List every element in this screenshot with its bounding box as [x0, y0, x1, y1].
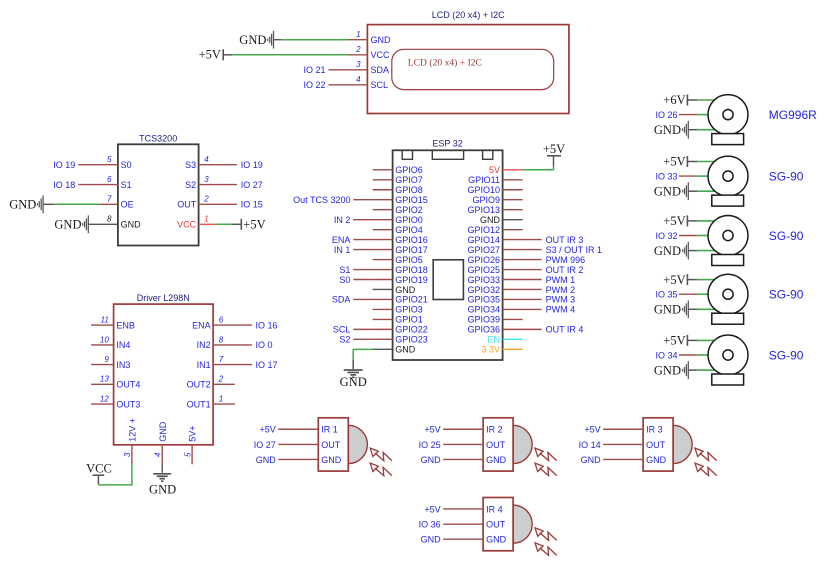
svg-text:IO 15: IO 15 [241, 200, 263, 210]
ESP 32 antenna notch right [483, 150, 493, 159]
svg-text:IO 19: IO 19 [53, 160, 75, 170]
svg-text:IR 4: IR 4 [486, 504, 503, 514]
svg-text:GPIO8: GPIO8 [395, 185, 423, 195]
svg-text:GPIO3: GPIO3 [395, 305, 423, 315]
wire GND to LCD pin 1 [274, 39, 282, 41]
ESP 32 pin GPIO21 (left row 14) [373, 298, 393, 300]
L298N pin 6 ENA [213, 324, 252, 326]
IR sensor IR 2 body [483, 418, 513, 471]
IR sensor IR 3 dome [673, 425, 692, 463]
IR emission arrows (IR 2) [535, 448, 543, 456]
servo M2 base [712, 195, 744, 206]
svg-text:IO 19: IO 19 [241, 160, 263, 170]
svg-text:GND: GND [646, 455, 667, 465]
svg-text:+5V: +5V [543, 142, 565, 156]
svg-text:SG-90: SG-90 [769, 229, 804, 243]
svg-text:GPIO15: GPIO15 [395, 195, 428, 205]
ESP 32 pin GPIO1 (left row 16) [373, 318, 393, 320]
wire GND to servo [688, 369, 697, 371]
svg-text:IN 1: IN 1 [334, 245, 351, 255]
IR emission arrows (IR 4) [535, 528, 543, 536]
svg-text:ENB: ENB [116, 320, 135, 330]
svg-text:6: 6 [219, 316, 224, 325]
ESP 32 pin GPIO7 (left row 2) [373, 179, 393, 181]
svg-text:GND: GND [395, 345, 416, 355]
wire IO 26 to servo [679, 114, 697, 116]
svg-text:IO 21: IO 21 [303, 65, 325, 75]
L298N pin 9 IN3 [91, 364, 114, 366]
IR sensor IR 4 body [483, 498, 513, 551]
wire GND to servo [688, 129, 697, 131]
svg-text:4: 4 [153, 452, 162, 457]
svg-text:5V+: 5V+ [188, 426, 198, 442]
ESP 32 pin GPIO2 (left row 5) [373, 209, 393, 211]
TCS3200 pin 4 S3 [199, 164, 237, 166]
svg-text:8: 8 [219, 335, 224, 344]
svg-text:11: 11 [100, 316, 108, 325]
svg-text:GND: GND [256, 455, 277, 465]
svg-text:GPIO17: GPIO17 [395, 245, 428, 255]
svg-text:Out TCS 3200: Out TCS 3200 [293, 195, 350, 205]
svg-text:+5V: +5V [663, 214, 685, 228]
svg-text:GPIO35: GPIO35 [467, 295, 500, 305]
svg-text:GND: GND [54, 218, 81, 232]
svg-text:1: 1 [204, 215, 208, 224]
ESP 32 pin GPIO5 (left row 10) [373, 259, 393, 261]
svg-text:VCC: VCC [371, 50, 391, 60]
svg-text:5V: 5V [489, 165, 500, 175]
svg-text:LCD (20 x4) + I2C: LCD (20 x4) + I2C [432, 10, 505, 20]
ESP 32 pin GPIO16 (left row 8) [373, 239, 393, 241]
svg-text:EN: EN [487, 335, 500, 345]
TCS3200 pin 6 S1 [98, 184, 118, 186]
svg-text:IN 2: IN 2 [334, 215, 351, 225]
wire IO 34 to servo [679, 354, 697, 356]
svg-text:OUT: OUT [646, 440, 666, 450]
svg-text:GPIO4: GPIO4 [395, 225, 423, 235]
LCD screen outline [392, 49, 554, 89]
ESP 32 pin GPIO22 (left row 17) [373, 328, 393, 330]
wire IO 33 to servo [679, 175, 697, 177]
wire +5V to servo [687, 339, 697, 341]
svg-text:GPIO5: GPIO5 [395, 255, 423, 265]
svg-text:IR 1: IR 1 [321, 425, 338, 435]
svg-text:OUT IR 3: OUT IR 3 [546, 235, 584, 245]
wire IO 19 to S0 [78, 164, 98, 166]
svg-text:PWM 3: PWM 3 [546, 295, 576, 305]
svg-text:IN2: IN2 [197, 340, 211, 350]
svg-text:GPIO27: GPIO27 [467, 245, 500, 255]
svg-text:OUT IR 4: OUT IR 4 [546, 325, 584, 335]
wire +5V to IR 4 [443, 508, 483, 510]
wire +5V to servo [687, 220, 697, 222]
wire +5V to LCD pin 2 [223, 54, 232, 56]
wire Out TCS 3200 to ESP 32 [353, 199, 372, 201]
svg-text:OUT: OUT [486, 519, 506, 529]
svg-text:S3: S3 [185, 160, 196, 170]
servo M3 body [708, 216, 748, 256]
ESP 32 pin GPIO0 (left row 6) [373, 219, 393, 221]
ESP 32 inner module rect [433, 260, 463, 300]
IR sensor IR 4 dome [513, 505, 532, 543]
wire IO 18 to S1 [78, 184, 98, 186]
wire SDA to ESP 32 [353, 298, 372, 300]
svg-text:OUT3: OUT3 [116, 399, 140, 409]
LCD pin 2 VCC [348, 54, 367, 56]
ESP 32 pin GPIO3 (left row 15) [373, 308, 393, 310]
L298N pin 13 OUT4 [91, 383, 114, 385]
wire IO 35 to servo [679, 293, 697, 295]
svg-text:1: 1 [219, 395, 223, 404]
L298N pin 8 IN2 [213, 344, 252, 346]
servo M4 base [712, 313, 744, 324]
svg-text:IR 2: IR 2 [486, 425, 503, 435]
svg-text:IN3: IN3 [116, 360, 130, 370]
wire +5V to servo [687, 161, 697, 163]
ESP 32 pin GPIO6 (left row 1) [373, 169, 393, 171]
servo M4 body [708, 274, 748, 314]
svg-text:GPIO36: GPIO36 [467, 325, 500, 335]
svg-text:S0: S0 [121, 160, 132, 170]
svg-text:GND: GND [9, 198, 36, 212]
wire ENA to ESP 32 [353, 239, 372, 241]
wire IO 25 to IR 2 [443, 443, 483, 445]
svg-text:GND: GND [654, 303, 681, 317]
svg-text:GND: GND [421, 534, 442, 544]
wire GND to OE [43, 203, 54, 205]
svg-text:IO 22: IO 22 [303, 80, 325, 90]
svg-text:IO 26: IO 26 [655, 110, 677, 120]
svg-text:ENA: ENA [192, 320, 211, 330]
svg-text:3.3V: 3.3V [481, 345, 500, 355]
svg-text:GND: GND [158, 421, 168, 442]
svg-text:IO 32: IO 32 [655, 231, 677, 241]
svg-text:GND: GND [480, 215, 501, 225]
svg-text:S1: S1 [121, 180, 132, 190]
svg-text:GND: GND [654, 363, 681, 377]
Driver L298N body [114, 304, 214, 445]
svg-text:GND: GND [421, 455, 442, 465]
svg-text:3: 3 [356, 60, 361, 69]
L298N pin 10 IN4 [91, 344, 114, 346]
servo M3 base [712, 255, 744, 266]
svg-text:OUT1: OUT1 [187, 399, 211, 409]
svg-text:4: 4 [204, 155, 209, 164]
wire IN 2 to ESP 32 [353, 219, 372, 221]
L298N pin 1 OUT1 [213, 403, 235, 405]
wire GND to pin 8 [88, 223, 118, 225]
svg-text:SDA: SDA [371, 65, 390, 75]
svg-text:2: 2 [218, 375, 224, 384]
svg-text:GPIO11: GPIO11 [468, 175, 500, 185]
IR sensor IR 2 dome [513, 425, 532, 463]
wire GND to IR 1 [278, 458, 318, 460]
LCD pin 1 GND [348, 39, 367, 41]
svg-text:GPIO0: GPIO0 [395, 215, 423, 225]
wire +5V to IR 1 [278, 428, 318, 430]
wire GND net to ESP 32 bottom-left [353, 348, 372, 350]
svg-text:7: 7 [107, 195, 112, 204]
svg-text:+5V: +5V [199, 48, 221, 62]
wire IN 1 to ESP 32 [353, 249, 372, 251]
wire S1 to ESP 32 [353, 269, 372, 271]
servo M5 base [712, 374, 744, 385]
svg-text:OUT: OUT [321, 440, 341, 450]
svg-text:GND: GND [654, 184, 681, 198]
svg-text:5: 5 [107, 155, 112, 164]
wire GND to IR 2 [443, 458, 483, 460]
ESP 32 body [393, 150, 503, 360]
svg-text:OUT IR 2: OUT IR 2 [546, 265, 584, 275]
svg-text:PWM 4: PWM 4 [546, 305, 576, 315]
wire IO 14 to IR 3 [603, 443, 643, 445]
svg-text:+5V: +5V [663, 334, 685, 348]
svg-text:6: 6 [107, 175, 112, 184]
svg-text:+5V: +5V [584, 425, 600, 435]
svg-text:GND: GND [121, 220, 142, 230]
svg-text:GND: GND [654, 123, 681, 137]
svg-text:IO 17: IO 17 [256, 360, 278, 370]
svg-text:5: 5 [183, 452, 192, 457]
svg-text:IO 14: IO 14 [579, 440, 601, 450]
IR sensor IR 3 body [643, 418, 673, 471]
svg-text:IO 36: IO 36 [419, 519, 441, 529]
svg-text:12: 12 [100, 395, 109, 404]
svg-text:GND: GND [149, 483, 176, 497]
svg-text:+6V: +6V [663, 93, 685, 107]
svg-text:IO 25: IO 25 [419, 440, 441, 450]
svg-text:+5V: +5V [663, 273, 685, 287]
svg-text:GPIO39: GPIO39 [467, 315, 500, 325]
svg-text:ENA: ENA [332, 235, 351, 245]
L298N pin 5 5V+ [191, 445, 193, 465]
svg-text:GND: GND [371, 35, 392, 45]
svg-text:GPIO12: GPIO12 [467, 225, 500, 235]
wire GND to servo [688, 190, 697, 192]
svg-text:OUT4: OUT4 [116, 380, 140, 390]
L298N pin 11 ENB [91, 324, 114, 326]
L298N pin 3 12V + [131, 445, 133, 465]
wire +5V to IR 2 [443, 428, 483, 430]
svg-text:S0: S0 [339, 275, 350, 285]
svg-text:7: 7 [219, 355, 224, 364]
svg-text:TCS3200: TCS3200 [139, 133, 177, 143]
svg-text:S2: S2 [185, 180, 196, 190]
svg-text:S3 / OUT IR 1: S3 / OUT IR 1 [546, 245, 602, 255]
svg-text:OUT2: OUT2 [187, 380, 211, 390]
power VCC [93, 474, 105, 476]
svg-text:ESP 32: ESP 32 [432, 139, 462, 149]
svg-text:GPIO13: GPIO13 [467, 205, 500, 215]
wire IO 36 to IR 4 [443, 523, 483, 525]
wire GND to servo [688, 250, 697, 252]
svg-text:IO 27: IO 27 [254, 440, 276, 450]
TCS3200 pin 2 OUT [199, 203, 237, 205]
svg-text:GND: GND [395, 285, 416, 295]
svg-text:GND: GND [239, 33, 266, 47]
svg-text:S1: S1 [339, 265, 350, 275]
wire IO 32 to servo [679, 235, 697, 237]
svg-text:GPIO34: GPIO34 [467, 305, 500, 315]
wire IO 21 to SDA [329, 69, 349, 71]
LCD pin 4 SCL [348, 84, 367, 86]
svg-text:SG-90: SG-90 [769, 288, 804, 302]
svg-text:GPIO14: GPIO14 [467, 235, 500, 245]
svg-text:+5V: +5V [663, 155, 685, 169]
svg-text:GPIO1: GPIO1 [395, 315, 423, 325]
ESP 32 pin GPIO4 (left row 7) [373, 229, 393, 231]
svg-text:GPIO18: GPIO18 [395, 265, 428, 275]
IR sensor IR 1 dome [348, 425, 367, 463]
IR emission arrows (IR 1) [370, 448, 378, 456]
ESP 32 pin GND (left row 13) [373, 288, 393, 290]
ESP 32 pin GPIO15 (left row 4) [373, 199, 393, 201]
svg-text:GPIO9: GPIO9 [472, 195, 500, 205]
wire GND to IR 4 [443, 538, 483, 540]
ESP 32 antenna notch left [402, 150, 412, 159]
TCS3200 pin 5 S0 [98, 164, 118, 166]
svg-text:13: 13 [100, 375, 109, 384]
ESP 32 pin GPIO8 (left row 3) [373, 189, 393, 191]
svg-text:3: 3 [123, 452, 132, 457]
svg-text:GPIO2: GPIO2 [395, 205, 423, 215]
wire IO 22 to SCL [329, 84, 349, 86]
svg-text:4: 4 [356, 75, 361, 84]
svg-text:SG-90: SG-90 [769, 169, 804, 183]
L298N pin 12 OUT3 [91, 403, 114, 405]
svg-text:GPIO19: GPIO19 [395, 275, 428, 285]
svg-text:LCD (20 x4) + I2C: LCD (20 x4) + I2C [408, 57, 482, 68]
svg-text:PWM 996: PWM 996 [546, 255, 586, 265]
svg-text:10: 10 [100, 335, 109, 344]
svg-text:12V +: 12V + [128, 418, 138, 442]
svg-text:IO 27: IO 27 [241, 180, 263, 190]
svg-text:GPIO6: GPIO6 [395, 165, 423, 175]
svg-text:GPIO33: GPIO33 [467, 275, 500, 285]
svg-text:SDA: SDA [332, 295, 351, 305]
svg-text:IO 35: IO 35 [655, 290, 677, 300]
svg-text:+5V: +5V [424, 504, 440, 514]
ESP 32 pin GPIO18 (left row 11) [373, 269, 393, 271]
IR sensor IR 1 body [318, 418, 348, 471]
svg-text:GPIO10: GPIO10 [467, 185, 500, 195]
power +5V (TCS3200 VCC) [216, 223, 232, 225]
svg-text:+5V: +5V [424, 425, 440, 435]
TCS3200 pin 3 S2 [199, 184, 237, 186]
svg-text:+5V: +5V [243, 218, 265, 232]
svg-text:IO 16: IO 16 [256, 320, 278, 330]
L298N pin 2 OUT2 [213, 383, 235, 385]
svg-text:OUT: OUT [177, 200, 197, 210]
wire GND to IR 3 [603, 458, 643, 460]
wire +5V to IR 3 [603, 428, 643, 430]
svg-text:SG-90: SG-90 [769, 348, 804, 362]
servo M1 base [712, 134, 744, 145]
svg-text:3: 3 [204, 175, 209, 184]
wire GND lead (L298N pin 4) [161, 464, 163, 473]
svg-text:VCC: VCC [177, 220, 197, 230]
IR emission arrows (IR 3) [695, 448, 703, 456]
svg-text:1: 1 [356, 30, 360, 39]
svg-text:IO 33: IO 33 [655, 171, 677, 181]
wire +6V to servo [687, 99, 697, 101]
svg-text:GPIO23: GPIO23 [395, 335, 428, 345]
svg-text:GND: GND [321, 455, 342, 465]
servo M5 body [708, 335, 748, 375]
wire +5V to servo [687, 279, 697, 281]
ESP 32 pin GPIO23 (left row 18) [373, 338, 393, 340]
servo M1 body [708, 95, 748, 135]
svg-text:Driver L298N: Driver L298N [137, 293, 190, 303]
svg-text:9: 9 [104, 355, 109, 364]
svg-text:GPIO16: GPIO16 [395, 235, 428, 245]
ESP 32 pin GPIO17 (left row 9) [373, 249, 393, 251]
ESP 32 pin GPIO19 (left row 12) [373, 279, 393, 281]
svg-text:IO 0: IO 0 [256, 340, 273, 350]
svg-text:GPIO21: GPIO21 [395, 295, 428, 305]
L298N pin 7 IN1 [213, 364, 252, 366]
svg-text:2: 2 [355, 45, 361, 54]
svg-text:GPIO25: GPIO25 [467, 265, 500, 275]
svg-text:GPIO22: GPIO22 [395, 325, 428, 335]
LCD module body [367, 25, 569, 114]
wire S0 to ESP 32 [353, 279, 372, 281]
wire SCL to ESP 32 [353, 328, 372, 330]
svg-text:IN4: IN4 [116, 340, 130, 350]
svg-text:GND: GND [486, 534, 507, 544]
svg-text:+5V: +5V [260, 425, 276, 435]
wire IO 27 to IR 1 [278, 443, 318, 445]
L298N pin 4 GND [161, 445, 163, 465]
svg-text:2: 2 [203, 195, 209, 204]
LCD pin 3 SDA [348, 69, 367, 71]
svg-text:IN1: IN1 [197, 360, 211, 370]
wire S2 to ESP 32 [353, 338, 372, 340]
TCS3200 body [118, 144, 199, 245]
ground GND (below ESP 32) [344, 369, 363, 371]
power +5V (ESP 32) [547, 155, 561, 157]
svg-text:OE: OE [121, 200, 134, 210]
svg-text:8: 8 [107, 215, 112, 224]
svg-text:PWM 2: PWM 2 [546, 285, 576, 295]
svg-text:GND: GND [581, 455, 602, 465]
svg-text:PWM 1: PWM 1 [546, 275, 576, 285]
svg-text:GND: GND [340, 375, 367, 389]
svg-text:IR 3: IR 3 [646, 425, 663, 435]
svg-text:VCC: VCC [86, 462, 112, 476]
svg-text:GND: GND [486, 455, 507, 465]
svg-text:S2: S2 [339, 335, 350, 345]
wire 12V+ to VCC [98, 464, 131, 485]
svg-text:GPIO7: GPIO7 [395, 175, 423, 185]
TCS3200 pin 7 OE [98, 203, 118, 205]
wire +5V to ESP 32 5V pin [523, 169, 554, 171]
wire GND to servo [688, 308, 697, 310]
svg-text:GPIO32: GPIO32 [467, 285, 500, 295]
ground GND (below L298N) [153, 473, 171, 475]
svg-text:SCL: SCL [371, 80, 389, 90]
svg-text:SCL: SCL [333, 325, 351, 335]
svg-text:MG996R: MG996R [769, 108, 817, 122]
ESP 32 antenna notch center [432, 150, 463, 159]
servo M2 body [708, 156, 748, 196]
svg-text:IO 34: IO 34 [655, 350, 677, 360]
svg-text:GND: GND [654, 244, 681, 258]
svg-text:OUT: OUT [486, 440, 506, 450]
svg-text:IO 18: IO 18 [53, 180, 75, 190]
svg-text:GPIO26: GPIO26 [467, 255, 500, 265]
